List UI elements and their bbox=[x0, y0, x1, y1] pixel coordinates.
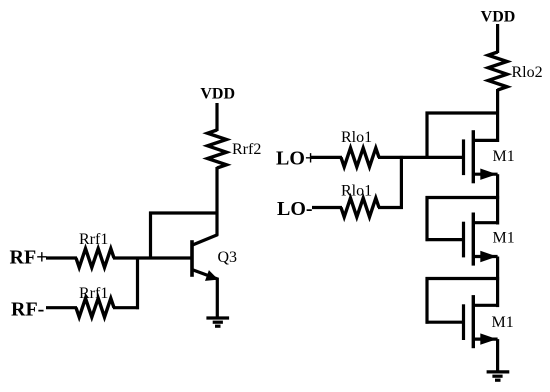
svg-text:M1: M1 bbox=[493, 148, 515, 165]
wire collector loop left bbox=[149, 212, 152, 260]
svg-text:Q3: Q3 bbox=[218, 249, 238, 266]
wire collector loop top bbox=[149, 211, 219, 214]
svg-text:Rlo2: Rlo2 bbox=[512, 64, 543, 81]
resistor Rrf2 bbox=[208, 130, 227, 168]
svg-text:LO+: LO+ bbox=[276, 147, 316, 169]
wire RF- lead bbox=[46, 306, 77, 309]
svg-text:Rlo1: Rlo1 bbox=[341, 129, 372, 146]
svg-text:RF-: RF- bbox=[11, 298, 44, 320]
wire M2 source to M3 drain bbox=[496, 257, 499, 308]
transistor Q3 bbox=[192, 235, 218, 281]
ground (right) bbox=[487, 372, 510, 380]
wire loop M2 left bbox=[425, 196, 428, 241]
wire loop M2 top bbox=[426, 196, 500, 199]
wire LO- lead bbox=[312, 206, 342, 209]
wire RF- vertical to base bbox=[136, 257, 139, 310]
wire base line bbox=[113, 256, 191, 259]
transistor M1 (bottom) bbox=[464, 295, 500, 348]
wire loop M3 top bbox=[426, 277, 500, 280]
resistor Rlo1 upper bbox=[341, 148, 379, 167]
ground (left) bbox=[206, 318, 229, 326]
resistor Rlo2 bbox=[488, 52, 507, 90]
svg-text:LO-: LO- bbox=[277, 198, 313, 220]
transistor M1 (top) bbox=[464, 130, 500, 183]
svg-text:Rrf1: Rrf1 bbox=[79, 231, 108, 248]
resistor Rlo1 lower bbox=[341, 198, 379, 217]
wire gate line M1 bbox=[378, 156, 462, 159]
wire gate line M2 bbox=[426, 238, 463, 241]
transistor M1 (middle) bbox=[464, 213, 500, 266]
wire Rlo2 to M1 drain bbox=[496, 89, 499, 142]
wire emitter to ground bbox=[216, 278, 219, 318]
svg-text:VDD: VDD bbox=[200, 86, 235, 103]
wire loop M3 left bbox=[425, 277, 428, 324]
svg-text:VDD: VDD bbox=[481, 9, 516, 26]
wire loop M1 top bbox=[426, 111, 500, 114]
wire gate line M3 bbox=[426, 321, 463, 324]
svg-text:Rlo1: Rlo1 bbox=[341, 183, 372, 200]
wire Rrf2 to collector bbox=[215, 167, 218, 236]
svg-text:Rrf2: Rrf2 bbox=[232, 141, 261, 158]
wire RF+ lead bbox=[46, 256, 77, 259]
resistor Rrf1 lower bbox=[76, 298, 114, 317]
wire LO- to gate junction bbox=[378, 206, 403, 209]
wire VDD to Rlo2 bbox=[496, 24, 499, 53]
wire LO- vertical to gate line bbox=[400, 156, 403, 209]
wire M3 source to ground bbox=[496, 339, 499, 372]
svg-text:RF+: RF+ bbox=[10, 246, 48, 268]
wire loop M1 left bbox=[425, 112, 428, 159]
wire VDD to Rrf2 bbox=[215, 103, 218, 131]
wire M1 source to M2 drain bbox=[496, 174, 499, 224]
svg-text:M1: M1 bbox=[493, 230, 515, 247]
svg-text:M1: M1 bbox=[492, 314, 514, 331]
resistor Rrf1 upper bbox=[76, 249, 114, 268]
wire LO+ lead bbox=[311, 156, 342, 159]
svg-text:Rrf1: Rrf1 bbox=[79, 285, 108, 302]
wire RF- to base junction bbox=[113, 306, 139, 309]
